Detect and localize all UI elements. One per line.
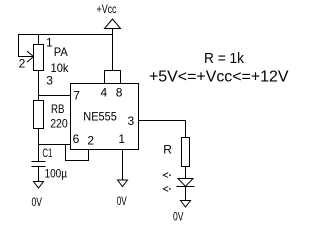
svg-text:PA: PA — [54, 45, 68, 59]
svg-text:10k: 10k — [51, 61, 70, 75]
svg-text:1: 1 — [118, 132, 125, 146]
svg-text:220: 220 — [50, 117, 68, 131]
svg-text:3: 3 — [128, 114, 135, 128]
svg-text:100µ: 100µ — [45, 167, 68, 181]
svg-text:2: 2 — [87, 134, 94, 148]
svg-text:2: 2 — [19, 57, 26, 71]
svg-text:6: 6 — [73, 132, 80, 146]
svg-text:+Vcc: +Vcc — [97, 2, 117, 16]
svg-text:R = 1k: R = 1k — [204, 50, 244, 67]
svg-text:7: 7 — [73, 89, 80, 103]
svg-text:0V: 0V — [32, 195, 43, 209]
svg-text:+5V<=+Vcc<=+12V: +5V<=+Vcc<=+12V — [149, 69, 289, 86]
svg-text:RB: RB — [51, 102, 65, 116]
svg-text:1: 1 — [46, 36, 53, 50]
svg-text:3: 3 — [46, 74, 53, 88]
svg-text:R: R — [163, 143, 172, 157]
svg-text:NE555: NE555 — [83, 110, 117, 124]
svg-text:0V: 0V — [117, 194, 127, 208]
svg-text:C1: C1 — [42, 146, 52, 160]
svg-text:4: 4 — [101, 86, 108, 100]
svg-text:8: 8 — [116, 86, 123, 100]
svg-text:0V: 0V — [173, 210, 184, 224]
